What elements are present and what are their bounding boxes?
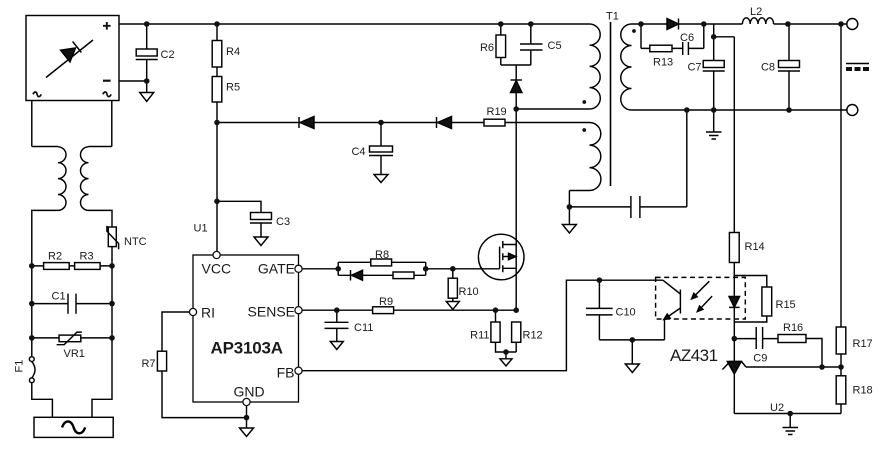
svg-text:R9: R9 [379, 296, 393, 308]
svg-text:U2: U2 [770, 402, 784, 414]
svg-text:R10: R10 [459, 286, 479, 298]
svg-text:RI: RI [201, 305, 215, 321]
svg-text:R16: R16 [783, 322, 803, 334]
svg-text:R2: R2 [48, 251, 62, 263]
svg-text:R13: R13 [653, 57, 673, 69]
svg-text:AP3103A: AP3103A [211, 339, 283, 358]
svg-text:NTC: NTC [124, 236, 147, 248]
svg-text:C7: C7 [687, 62, 701, 74]
svg-text:C10: C10 [616, 307, 636, 319]
svg-text:VR1: VR1 [64, 348, 85, 360]
svg-text:R7: R7 [141, 358, 155, 370]
svg-text:AZ431: AZ431 [670, 346, 718, 365]
svg-text:C8: C8 [761, 62, 775, 74]
svg-text:U1: U1 [194, 223, 208, 235]
svg-text:C11: C11 [354, 322, 373, 334]
svg-text:C5: C5 [548, 40, 562, 52]
svg-text:T1: T1 [606, 11, 619, 23]
svg-text:R3: R3 [80, 251, 94, 263]
svg-text:R11: R11 [470, 330, 489, 342]
svg-text:SENSE: SENSE [248, 304, 295, 320]
svg-text:R8: R8 [375, 249, 389, 261]
svg-text:FB: FB [277, 365, 295, 381]
svg-text:L2: L2 [750, 6, 762, 18]
svg-text:R17: R17 [853, 338, 873, 350]
svg-text:R15: R15 [776, 299, 796, 311]
svg-text:C4: C4 [351, 146, 365, 158]
svg-text:C3: C3 [276, 216, 290, 228]
svg-text:C2: C2 [161, 49, 175, 61]
svg-text:R12: R12 [523, 330, 543, 342]
svg-text:VCC: VCC [202, 261, 232, 277]
svg-text:R4: R4 [226, 46, 240, 58]
svg-text:C6: C6 [680, 32, 694, 44]
svg-text:R5: R5 [226, 82, 240, 94]
svg-text:R14: R14 [745, 241, 765, 253]
svg-text:GND: GND [234, 384, 265, 400]
svg-text:R18: R18 [853, 385, 873, 397]
svg-text:GATE: GATE [258, 261, 295, 277]
svg-text:R6: R6 [480, 42, 494, 54]
svg-text:F1: F1 [14, 360, 26, 373]
svg-text:R19: R19 [487, 106, 507, 118]
svg-text:C9: C9 [753, 353, 767, 365]
svg-text:C1: C1 [52, 291, 66, 303]
